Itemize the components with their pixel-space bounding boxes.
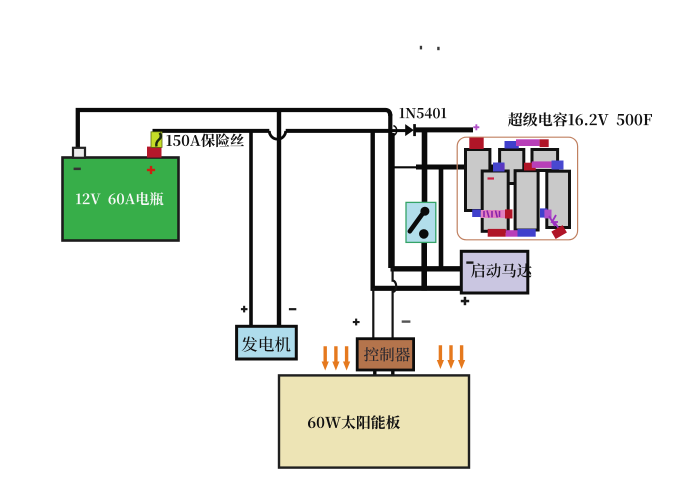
cap bank mid-right blue link (552, 161, 564, 170)
wire motor positive feed (371, 286, 463, 291)
cap bank bottom-right red block (551, 225, 567, 239)
label 12V 60A battery (76, 192, 164, 205)
cap bank lower-right orchid link (544, 210, 551, 219)
starter motor minus sign (466, 261, 473, 263)
cap bank mid-left blue link (493, 163, 505, 172)
battery positive terminal post (147, 147, 162, 158)
wire second bus left segment (fuse to hop) (153, 129, 270, 133)
cap bank mid magenta link (532, 161, 553, 168)
stray mark left (420, 46, 422, 50)
capacitor cell C3 (532, 150, 558, 171)
battery plus sign (147, 166, 155, 174)
label 1N5401 (399, 108, 446, 119)
cap bank lower crimson link (505, 209, 513, 218)
wire switch upper lead (422, 128, 428, 208)
controller body (357, 339, 413, 370)
capacitor cell C2 (500, 150, 524, 184)
cap bank lower-right blue link (540, 208, 547, 217)
wire generator positive lead (249, 131, 253, 327)
wire top bus drop to diode anode node (388, 114, 392, 268)
cap bank lower pink link purple marks (484, 211, 500, 218)
switch lever (410, 214, 423, 232)
battery negative terminal post (73, 148, 85, 158)
label 150A fuse (166, 133, 244, 147)
starter motor body (461, 251, 528, 293)
generator minus sign (289, 308, 296, 310)
switch upper contact (420, 207, 429, 216)
sunlight arrows right group (437, 345, 465, 369)
wire diode cathode to capacitor bank positive (414, 127, 473, 132)
diode 1N5401 triangle (405, 124, 414, 136)
cap bank lower pink link (481, 210, 509, 218)
cap bank top magenta link (516, 139, 540, 146)
label starter motor (471, 263, 532, 278)
wire diode anode stub (390, 129, 406, 132)
cap bank top-right red link (540, 139, 549, 147)
supercapacitor bank enclosure (457, 137, 577, 240)
starter motor plus sign (461, 297, 469, 305)
wire second bus branch to motor positive (371, 130, 375, 291)
label controller (364, 347, 410, 361)
generator plus sign (241, 306, 248, 313)
switch lower contact (419, 229, 429, 239)
wire second bus hop under generator-negative wire (269, 131, 285, 139)
cap bank positive terminal block (469, 138, 483, 149)
wire second bus right segment (hop to diode node) (286, 129, 390, 133)
label supercapacitor 16.2V 500F (508, 112, 652, 126)
cap bank positive sign (473, 124, 479, 130)
wire controller to solar panel right stub (391, 369, 394, 377)
wire capacitor-bank mid feed thin start (389, 166, 418, 168)
fuse 150A body (151, 132, 162, 148)
battery minus sign (74, 168, 81, 171)
capacitor cell C5 (515, 171, 538, 230)
wire mid feed drop to motor negative feed (439, 167, 444, 268)
fuse element mark (156, 133, 161, 147)
solar panel body (279, 375, 469, 467)
battery 12V 60A body (63, 158, 179, 241)
wire battery negative to top bus (78, 110, 391, 151)
wire diode node down-leg (391, 133, 395, 269)
diode anode elbow arc (393, 126, 396, 136)
cap bank bottom crimson bar (488, 229, 506, 237)
cap bank bottom magenta bar (506, 230, 518, 237)
cap bank top blue link (505, 141, 519, 149)
wire switch lower lead (421, 236, 427, 291)
cap cell C4 polarity dash (488, 177, 495, 179)
generator body (237, 326, 297, 359)
wire capacitor-bank mid feed (416, 165, 496, 170)
controller minus sign (402, 320, 411, 322)
wire generator negative lead (277, 110, 281, 327)
capacitor cell C4 (482, 171, 508, 231)
label 60W solar panel (308, 415, 400, 429)
wire thin controller negative with hop (393, 268, 397, 339)
stray mark right (437, 47, 439, 50)
controller plus sign (353, 319, 360, 326)
sunlight arrows left group (322, 346, 351, 370)
diode 1N5401 cathode bar (413, 124, 416, 136)
label generator (242, 336, 291, 351)
cap bank lower-left blue link (472, 209, 481, 217)
cap bank mid red link (524, 163, 536, 171)
capacitor cell C1 (466, 150, 490, 211)
wire thin branch to controller positive (372, 288, 374, 339)
cap bank bottom blue bar (518, 229, 536, 237)
switch K1 body (406, 202, 436, 242)
wire motor negative feed (391, 266, 463, 271)
wire controller to solar panel left stub (373, 369, 376, 377)
capacitor cell C6 (547, 171, 570, 227)
cap bank purple scribble 42 (549, 215, 559, 229)
